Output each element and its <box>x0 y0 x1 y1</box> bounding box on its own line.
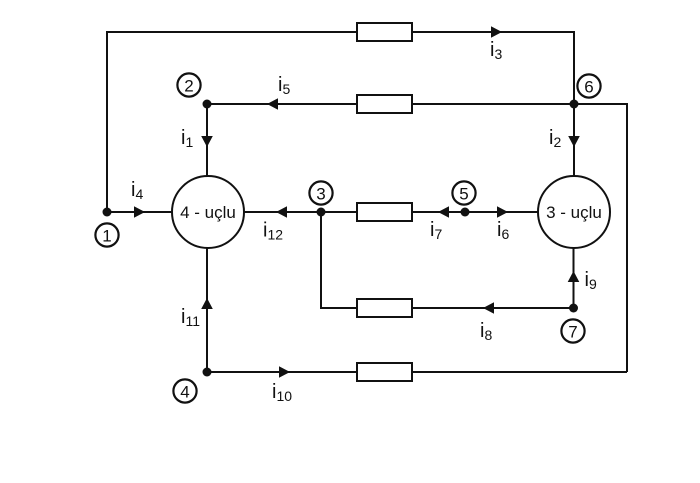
wire node2 to 4-uclu top <box>206 104 208 176</box>
wire node3 down and across to node 7 <box>321 212 574 308</box>
wire 4-uclu bottom to node4 <box>206 248 208 372</box>
svg-text:2: 2 <box>184 76 193 95</box>
resistor box R5 (bottom wire) <box>357 363 412 381</box>
junction node 7 <box>569 304 578 313</box>
resistor box R4 (i8 wire) <box>357 299 412 317</box>
arrow i1 down <box>201 136 213 147</box>
arrow i9 up <box>568 271 580 282</box>
op element U1 4-uclu <box>172 176 244 248</box>
node 3 <box>309 181 332 204</box>
wire top loop from node 1 up and across to node 6 corner <box>107 32 574 212</box>
node 7 <box>561 319 584 342</box>
arrow i5 left <box>267 98 278 110</box>
arrow i7 left <box>438 206 449 218</box>
svg-text:4 - uçlu: 4 - uçlu <box>180 203 236 222</box>
node 5 <box>452 181 475 204</box>
node 1 <box>95 223 118 246</box>
wire bottom from node4 to right vertical <box>207 371 627 373</box>
arrow i11 up <box>201 298 213 309</box>
arrow i4 right <box>134 206 145 218</box>
svg-text:6: 6 <box>584 77 593 96</box>
wire node1 to 4-uclu left <box>107 211 172 213</box>
svg-text:4: 4 <box>180 382 189 401</box>
node 4 <box>173 379 196 402</box>
junction node 3 <box>317 208 326 217</box>
resistor box R3 (middle wire) <box>357 203 412 221</box>
arrow i8 left <box>483 302 494 314</box>
wire middle between 4-uclu and 3-uclu <box>244 211 538 213</box>
junction node 2 <box>203 100 212 109</box>
arrow i12 left <box>276 206 287 218</box>
arrow i3 right <box>491 26 502 38</box>
wire 3-uclu bottom to node7 <box>573 248 575 308</box>
arrow i2 down <box>568 136 580 147</box>
svg-text:1: 1 <box>102 226 111 245</box>
wire i5 horizontal from node 2 to right vertical <box>207 104 627 372</box>
resistor box R1 (top wire) <box>357 23 412 41</box>
wire node6 to 3-uclu top <box>573 104 575 176</box>
junction node 5 <box>461 208 470 217</box>
arrow i10 right <box>279 366 290 378</box>
svg-text:3: 3 <box>316 184 325 203</box>
junction node 1 <box>103 208 112 217</box>
junction node 6 <box>570 100 579 109</box>
node 6 <box>577 74 600 97</box>
svg-text:3 - uçlu: 3 - uçlu <box>546 203 602 222</box>
junction node 4 <box>203 368 212 377</box>
node 2 <box>177 73 200 96</box>
svg-text:7: 7 <box>568 322 577 341</box>
arrow i6 right <box>497 206 508 218</box>
svg-text:5: 5 <box>459 184 468 203</box>
resistor box R2 (i5 wire) <box>357 95 412 113</box>
op element U2 3-uclu <box>538 176 610 248</box>
